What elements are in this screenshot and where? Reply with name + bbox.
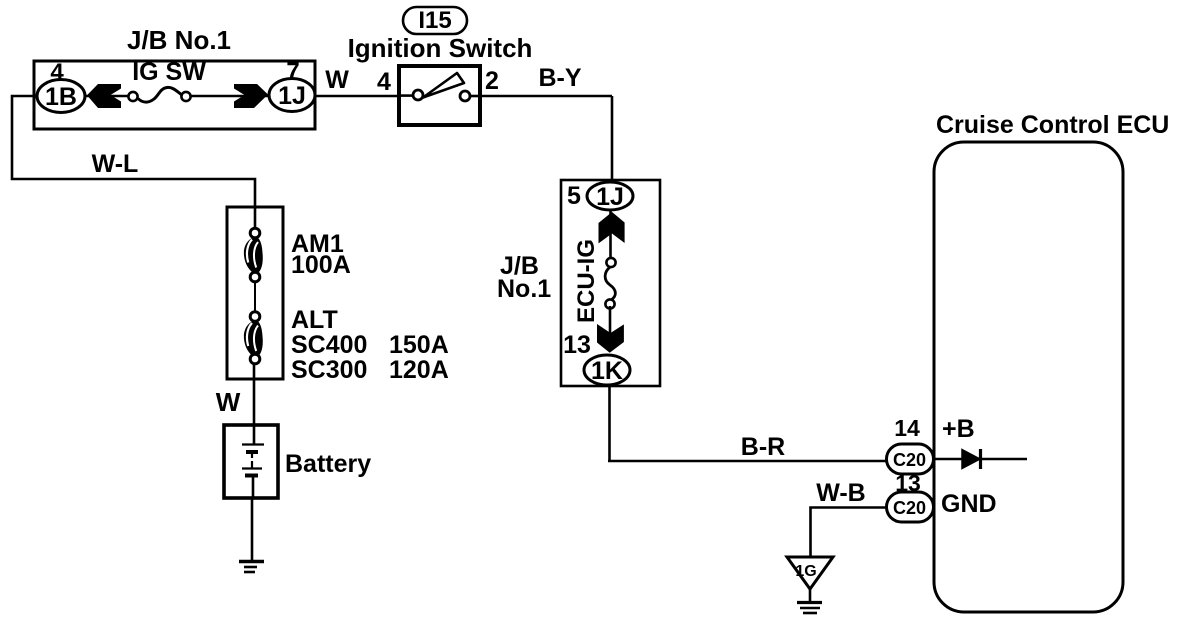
arrow up toward 1J (middle) <box>599 212 625 243</box>
wire fuse to arrow down (middle) <box>609 306 612 351</box>
svg-text:1J: 1J <box>596 183 624 211</box>
svg-text:B-Y: B-Y <box>538 64 581 92</box>
wire 1J to fuse (middle) <box>609 209 612 260</box>
svg-text:+B: +B <box>942 415 975 443</box>
wire battery to ground <box>251 498 254 561</box>
arrow down toward 1K <box>597 324 624 353</box>
svg-text:2: 2 <box>485 67 499 95</box>
connector C20 (pin 13) <box>887 492 934 522</box>
ground stub (1G) <box>809 589 812 602</box>
wire W-L from 1B: left segment <box>12 96 255 208</box>
wire W (1J to ignition switch) <box>315 95 399 98</box>
svg-text:W-L: W-L <box>92 150 139 178</box>
wire W-B <box>811 508 888 559</box>
svg-text:IG SW: IG SW <box>132 58 206 86</box>
svg-text:SC400: SC400 <box>291 331 367 359</box>
svg-text:W: W <box>216 387 241 417</box>
junction block J/B No.1 (middle) box <box>561 180 660 386</box>
connector 1J (middle) <box>587 182 633 211</box>
svg-text:ECU-IG: ECU-IG <box>573 239 600 323</box>
wire +B inside ECU <box>932 458 1027 461</box>
svg-text:ALT: ALT <box>291 306 338 334</box>
svg-text:Cruise Control ECU: Cruise Control ECU <box>936 111 1169 139</box>
svg-text:SC300: SC300 <box>291 356 367 384</box>
fusible link AM1 <box>244 228 263 282</box>
wire 1K down <box>608 385 611 461</box>
svg-text:GND: GND <box>941 490 997 518</box>
ignition switch SW1 box <box>399 66 480 125</box>
svg-text:4: 4 <box>377 68 391 96</box>
diode D1 <box>962 449 981 469</box>
svg-text:Battery: Battery <box>285 450 371 478</box>
connector C20 (pin 14) <box>887 444 934 474</box>
svg-text:4: 4 <box>50 59 64 86</box>
wire W to battery <box>253 363 256 426</box>
battery box <box>224 425 278 498</box>
wire between fusible links <box>254 281 256 313</box>
arrow toward 1B <box>87 84 121 108</box>
wire inside switch (right pin) <box>469 95 481 98</box>
wire B-Y vertical down to J/B <box>611 96 614 182</box>
svg-text:1K: 1K <box>591 357 623 385</box>
ECU box Cruise Control ECU <box>934 142 1123 612</box>
fuse ECU-IG <box>605 258 615 309</box>
svg-text:1J: 1J <box>278 82 306 110</box>
svg-text:W: W <box>325 66 349 94</box>
svg-text:5: 5 <box>567 182 581 210</box>
junction block J/B No.1 (top) box <box>34 61 315 129</box>
svg-text:120A: 120A <box>389 356 449 384</box>
svg-text:C20: C20 <box>893 450 926 470</box>
svg-text:100A: 100A <box>291 251 351 279</box>
wire 1B to fuse (inside J/B) <box>80 95 130 98</box>
svg-text:I15: I15 <box>418 7 451 34</box>
wire inside switch (left pin) <box>399 94 414 97</box>
connector code I15 <box>403 7 467 34</box>
connector 1K <box>584 355 630 385</box>
connector 1J (top) <box>269 79 315 112</box>
battery symbol <box>242 425 264 498</box>
ground (battery) <box>239 562 264 573</box>
ground lines (1G) <box>797 603 822 614</box>
svg-text:No.1: No.1 <box>497 275 551 303</box>
connector 1B <box>37 80 85 113</box>
wire B-R horizontal <box>608 460 888 463</box>
svg-text:13: 13 <box>563 331 591 359</box>
svg-text:C20: C20 <box>893 498 926 518</box>
fusible link ALT <box>244 312 263 364</box>
svg-text:1G: 1G <box>795 563 816 580</box>
svg-text:J/B No.1: J/B No.1 <box>127 25 231 55</box>
svg-text:1B: 1B <box>45 83 77 111</box>
svg-text:B-R: B-R <box>741 433 785 461</box>
svg-text:150A: 150A <box>389 331 449 359</box>
svg-text:W-B: W-B <box>816 479 865 507</box>
fuse IG SW <box>128 87 190 102</box>
wire fuse to 1J (inside J/B) <box>188 95 272 98</box>
svg-text:14: 14 <box>894 415 920 441</box>
svg-text:Ignition Switch: Ignition Switch <box>348 33 533 63</box>
arrow toward 1J <box>234 84 268 108</box>
wire B-Y horizontal <box>480 95 612 98</box>
ground triangle 1G <box>787 557 833 589</box>
switch lever <box>423 73 464 98</box>
svg-text:7: 7 <box>286 58 299 85</box>
wire into fusible box <box>254 207 257 230</box>
fusible link box <box>227 207 283 379</box>
switch contact pins <box>413 90 423 100</box>
